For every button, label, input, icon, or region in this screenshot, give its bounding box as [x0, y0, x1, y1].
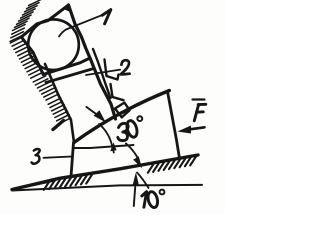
wall line	[45, 64, 74, 143]
label 10deg	[142, 190, 165, 209]
cage edge B-C and rod main line down to incline	[69, 5, 116, 119]
cage peak ink blob	[65, 5, 72, 13]
ground incline line	[12, 155, 198, 190]
30 deg arc with arrowhead	[99, 124, 114, 153]
label 2 leader	[86, 70, 120, 75]
horizontal ground line	[12, 185, 202, 191]
label 1	[102, 10, 111, 24]
lower bar under cage	[46, 69, 92, 83]
curved arrow to ground line	[126, 144, 138, 159]
30 deg lower arm	[74, 145, 134, 148]
right-angle square on incline	[115, 103, 130, 118]
rod step bracket 2	[111, 84, 124, 100]
cage around ball: edge A-B (top-left)	[21, 5, 68, 37]
rod right parallel line	[93, 49, 111, 98]
ground hatch left	[44, 174, 93, 190]
wall hatching	[10, 0, 71, 130]
label 30deg	[118, 116, 142, 140]
rod step bracket 1	[105, 60, 119, 80]
cage edge C-D (bottom)	[43, 58, 90, 74]
ground hatch right	[148, 156, 197, 173]
10 deg arrow from below	[134, 187, 135, 206]
label 3 leader	[44, 157, 72, 158]
label 3	[32, 149, 40, 164]
label F bar	[193, 98, 205, 100]
label 1 leader	[59, 15, 102, 36]
label 2	[121, 60, 130, 74]
ground incline left thick taper	[17, 180, 55, 188]
wedge left face	[71, 143, 74, 177]
10 deg arc segment	[137, 173, 149, 189]
wedge right face	[168, 92, 180, 159]
arrow onto incline (30 deg upper)	[87, 107, 100, 117]
wedge incline top surface	[74, 91, 169, 143]
ball 1 circle	[28, 19, 79, 70]
cage edge D-A (bottom-left)	[21, 37, 43, 74]
force F arrow	[190, 127, 205, 129]
